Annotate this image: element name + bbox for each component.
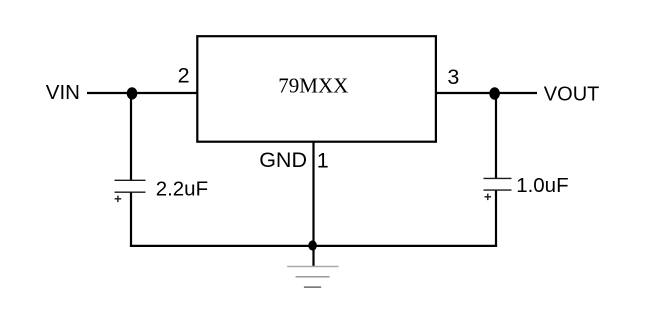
svg-text:79MXX: 79MXX: [278, 73, 348, 97]
junction node at VOUT: [489, 87, 500, 99]
wire C2 bottom to ground rail: [495, 190, 497, 246]
junction node at VIN: [127, 87, 138, 99]
svg-text:VIN: VIN: [46, 81, 80, 104]
svg-text:3: 3: [447, 65, 459, 89]
svg-text:GND: GND: [259, 148, 307, 172]
wire output node down to C2 top: [495, 93, 497, 178]
regulator U1 79MXX body: [197, 36, 436, 142]
wire bottom ground rail: [130, 245, 497, 247]
capacitor C1 top plate: [115, 179, 146, 181]
ground symbol bar 3: [304, 286, 321, 288]
wire C1 bottom to ground rail: [130, 192, 132, 246]
wire pin 3 to VOUT lead: [436, 92, 537, 94]
capacitor C2 top plate: [484, 177, 512, 179]
wire VIN lead to pin 2: [87, 92, 197, 94]
svg-text:1.0uF: 1.0uF: [516, 174, 568, 197]
svg-text:1: 1: [317, 148, 329, 172]
svg-text:VOUT: VOUT: [544, 84, 600, 106]
ground symbol bar 1: [287, 266, 338, 268]
capacitor C1 bottom plate: [115, 191, 146, 193]
svg-text:2.2uF: 2.2uF: [156, 178, 208, 201]
wire GND pin 1 down to rail and ground symbol: [312, 142, 314, 266]
capacitor C2 bottom plate: [484, 189, 512, 191]
capacitor C2 plus polarity mark: [485, 194, 492, 201]
junction node at ground rail: [308, 240, 317, 250]
wire input node down to C1 top: [130, 93, 132, 180]
capacitor C1 plus polarity mark: [115, 196, 122, 203]
ground symbol bar 2: [296, 276, 330, 278]
svg-text:2: 2: [178, 63, 190, 87]
